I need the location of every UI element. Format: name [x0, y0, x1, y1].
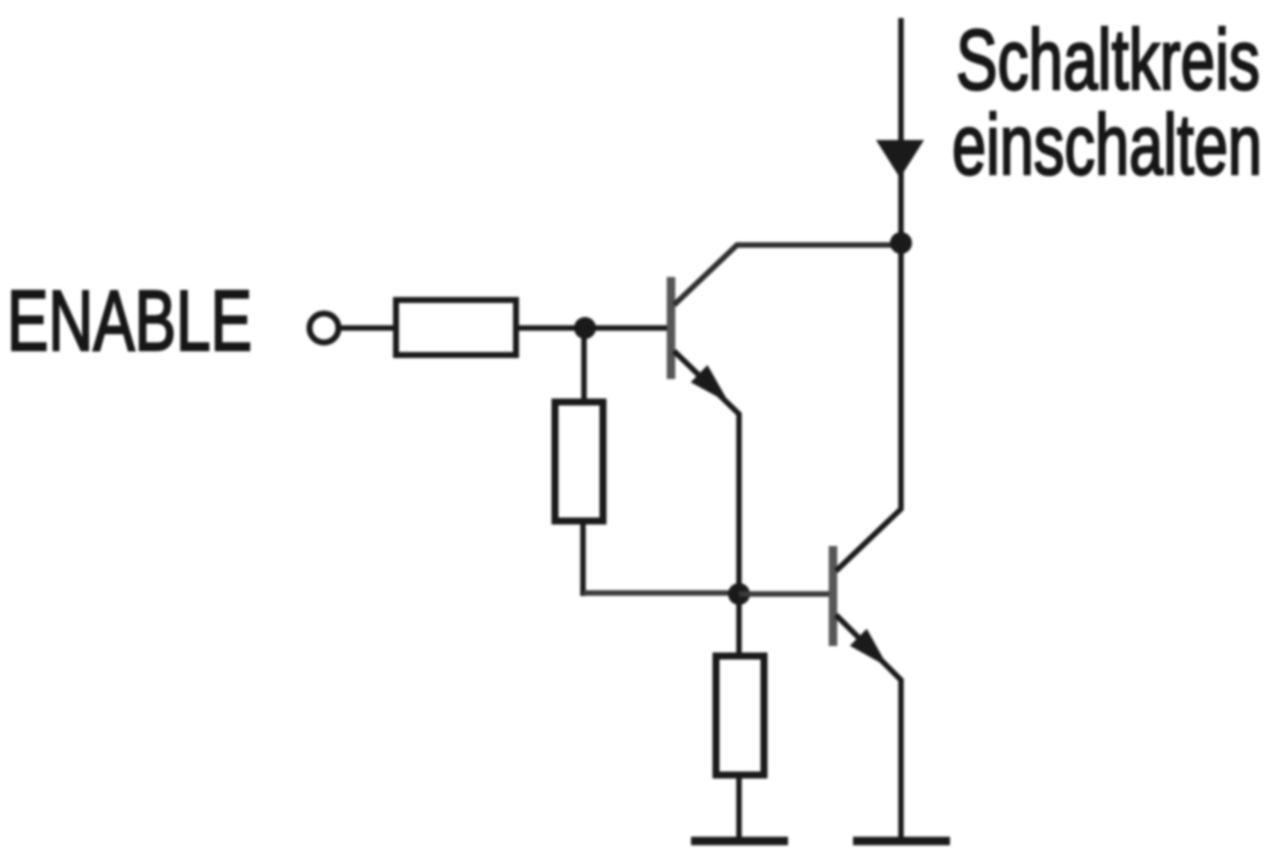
transistor Q2 collector: [836, 243, 901, 571]
supply wire from top: [898, 18, 904, 245]
wire terminal to R1: [339, 325, 396, 331]
transistor Q2 emitter: [836, 615, 901, 840]
svg-text:einschalten: einschalten: [952, 98, 1262, 193]
resistor R3: [716, 656, 764, 775]
wire node A down to R2: [581, 328, 587, 401]
transistor Q2 base bar: [829, 546, 838, 646]
wire node B down to R3: [736, 594, 742, 655]
node A junction dot: [574, 317, 596, 339]
wire elbow to node B: [583, 590, 739, 596]
resistor R1: [396, 300, 516, 355]
input terminal circle: [310, 314, 339, 343]
ground symbol 1: [691, 837, 788, 846]
svg-text:ENABLE: ENABLE: [7, 274, 252, 369]
resistor R2: [555, 402, 603, 521]
wire node B to Q2 base: [739, 591, 830, 597]
wire R2 bottom to elbow: [580, 523, 586, 596]
transistor Q2 emitter arrow: [850, 629, 888, 667]
transistor Q1 emitter: [674, 351, 739, 594]
label Schaltkreis einschalten: [952, 13, 1262, 193]
transistor Q1 emitter arrow: [691, 365, 729, 403]
node C junction dot: [890, 232, 912, 254]
node B junction dot: [728, 583, 750, 605]
ground symbol 2: [853, 837, 950, 846]
svg-text:Schaltkreis: Schaltkreis: [956, 13, 1260, 108]
wire R1 to node A and on to Q1 base: [516, 325, 668, 331]
supply arrow down: [876, 140, 924, 178]
transistor Q1 collector: [674, 245, 901, 305]
wire R3 to ground: [736, 777, 742, 840]
transistor Q1 base bar: [667, 277, 676, 379]
